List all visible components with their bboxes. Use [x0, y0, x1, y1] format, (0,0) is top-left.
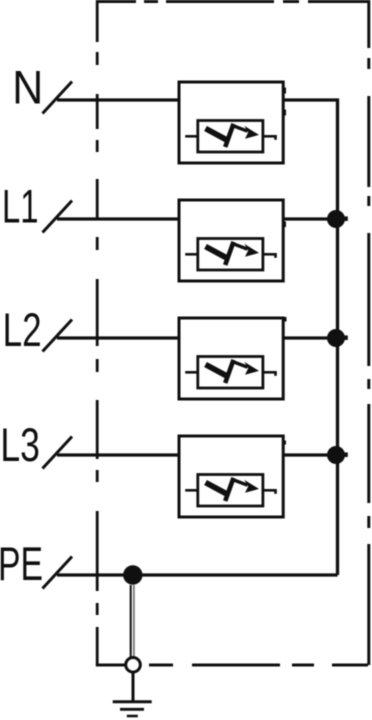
wire N input [57, 98, 179, 101]
enclosure dashed border (right side) [367, 0, 370, 665]
junction dot L3/bus [327, 446, 345, 464]
junction dot PE [123, 565, 142, 584]
junction dot L2/bus [327, 329, 345, 347]
disconnect slash PE [43, 557, 73, 589]
surge arrester module N [179, 82, 283, 163]
wire L3 output [283, 453, 338, 456]
disconnect slash N [43, 82, 73, 114]
svg-text:L1: L1 [2, 180, 39, 233]
wire N output to bus [283, 100, 338, 575]
wire L2 input [57, 336, 179, 339]
wire L3 input [57, 453, 179, 456]
ground symbol [132, 673, 135, 702]
surge arrester module L1 [179, 200, 283, 281]
surge arrester module L3 [179, 436, 283, 517]
disconnect slash L3 [43, 437, 73, 469]
terminal circle [126, 658, 141, 673]
disconnect slash L1 [43, 201, 73, 233]
svg-text:N: N [12, 61, 43, 114]
enclosure dashed border (top side) [97, 0, 368, 3]
wire L2 output [283, 336, 338, 339]
wire L1 input [57, 217, 179, 220]
tick marks on module edges (scan artifacts) [283, 88, 286, 94]
wire L1 output [283, 217, 338, 220]
svg-text:L2: L2 [3, 303, 42, 356]
junction dot L1/bus [327, 210, 345, 228]
svg-text:PE: PE [0, 537, 43, 590]
disconnect slash L2 [43, 320, 73, 352]
wire PE [57, 573, 338, 576]
enclosure dashed border (bottom side) [96, 664, 368, 667]
surge arrester module L2 [179, 318, 283, 399]
enclosure dashed border (left side) [96, 0, 99, 665]
svg-text:L3: L3 [0, 418, 40, 471]
PE drop wire (double line) [130, 585, 132, 657]
